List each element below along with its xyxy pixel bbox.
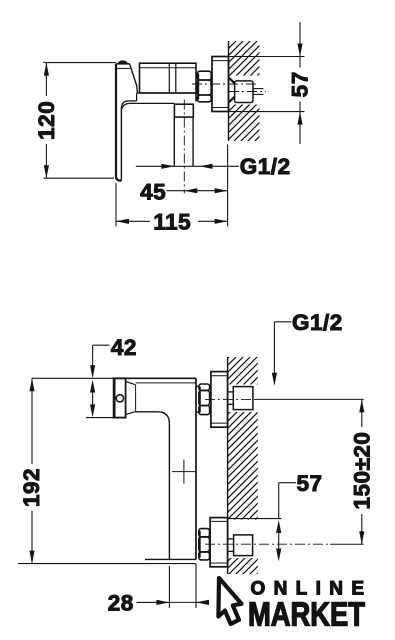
white mask over top socket bbox=[228, 385, 259, 413]
dimension 192 bbox=[18, 378, 196, 563]
pipe axis centerline (top view, eccentric) bbox=[229, 91, 266, 93]
top hex nut (bottom view) bbox=[199, 384, 210, 415]
bottom wall socket (bottom view) bbox=[228, 535, 253, 556]
white mask over socket area bbox=[229, 76, 261, 105]
G1/2 label (bottom view) bbox=[272, 322, 292, 386]
dimension 115 bbox=[116, 145, 228, 227]
top connection axis bbox=[205, 398, 256, 400]
hex nut (top view) bbox=[197, 71, 211, 102]
svg-text:120: 120 bbox=[34, 101, 59, 140]
body-to-nut stub (top connection) bbox=[196, 386, 199, 412]
bottom hex nut (bottom view) bbox=[199, 529, 210, 560]
dimension 57 (top view) bbox=[229, 22, 305, 144]
lever handle (top view) bbox=[116, 64, 137, 181]
svg-text:G1/2: G1/2 bbox=[292, 310, 343, 335]
svg-text:115: 115 bbox=[153, 209, 191, 234]
dimension 42 bbox=[86, 345, 114, 417]
white mask over bottom socket bbox=[228, 520, 259, 558]
outlet centerline bbox=[183, 100, 185, 194]
svg-text:45: 45 bbox=[140, 179, 166, 204]
wall face line (bottom view) bbox=[227, 357, 229, 574]
escutcheon flange (top view) bbox=[212, 57, 229, 112]
svg-text:57: 57 bbox=[288, 71, 313, 97]
logo white background bbox=[210, 574, 395, 640]
outlet pipe (top view) bbox=[174, 117, 193, 166]
top wall socket (bottom view) bbox=[228, 387, 253, 410]
dimension 120 bbox=[44, 63, 116, 179]
svg-text:MARKET: MARKET bbox=[248, 596, 365, 633]
svg-text:28: 28 bbox=[108, 591, 134, 616]
wall hatch (top view) bbox=[216, 0, 270, 187]
faucet axis centerline (top view) bbox=[192, 83, 257, 85]
wall hatch (bottom view) bbox=[216, 316, 270, 636]
bottom escutcheon (bottom view) bbox=[210, 518, 228, 567]
svg-text:G1/2: G1/2 bbox=[240, 154, 291, 179]
svg-text:192: 192 bbox=[19, 468, 44, 507]
wall socket (top view) bbox=[229, 78, 264, 103]
G1/2 label (top view) bbox=[136, 164, 239, 169]
svg-text:57: 57 bbox=[296, 471, 322, 496]
body bottom and skirt (top view) bbox=[121, 93, 196, 112]
dimension 57 (bottom view) bbox=[228, 483, 296, 562]
top escutcheon (bottom view) bbox=[211, 372, 228, 428]
dimension 45 bbox=[167, 188, 228, 193]
svg-text:42: 42 bbox=[111, 335, 137, 360]
dimension 150±20 bbox=[359, 399, 364, 544]
bottom connection axis bbox=[205, 543, 330, 545]
cursor arrow icon bbox=[218, 578, 241, 624]
lever handle (bottom view) bbox=[114, 378, 196, 424]
svg-text:150±20: 150±20 bbox=[349, 432, 374, 510]
body column (bottom view) bbox=[145, 378, 196, 559]
body block (top view) bbox=[140, 63, 197, 101]
outlet nut (top view) bbox=[174, 104, 193, 117]
dimension 28 bbox=[137, 564, 210, 608]
wall face line (top view) bbox=[228, 41, 230, 141]
handle cap dome (black) bbox=[118, 60, 128, 63]
